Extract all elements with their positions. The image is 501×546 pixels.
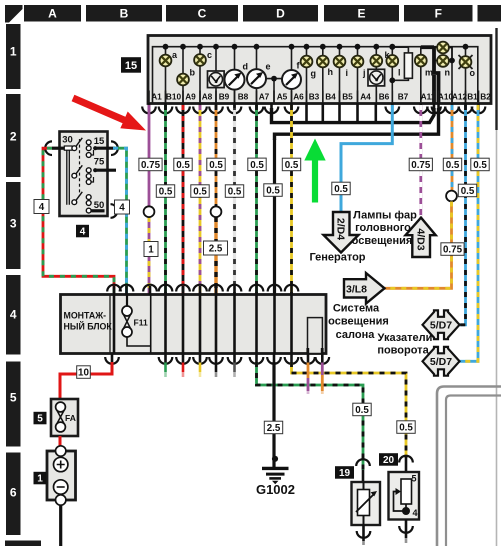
svg-text:0.5: 0.5 xyxy=(461,186,475,197)
bus junction dots xyxy=(163,44,169,50)
svg-text:C: C xyxy=(198,7,207,21)
element letter labels xyxy=(172,50,476,79)
wire lamp b to pin A9 xyxy=(182,47,184,103)
svg-text:d: d xyxy=(243,62,249,72)
svg-text:A7: A7 xyxy=(259,92,270,102)
connector arrow 2/D4 (to generator) xyxy=(324,212,359,253)
wire battery to chassis xyxy=(59,505,62,546)
svg-text:E: E xyxy=(357,7,365,21)
red pointer arrow xyxy=(72,95,146,131)
svg-text:B5: B5 xyxy=(342,92,353,102)
svg-text:A5: A5 xyxy=(277,92,288,102)
label 0.5 green wire xyxy=(353,403,371,416)
gauge B6 (temperature) xyxy=(368,69,385,86)
switch contact 30 terminal xyxy=(52,147,64,150)
connector fork terminal 50 xyxy=(111,204,118,218)
lamp l + resistor parallel branch wires xyxy=(392,47,408,103)
wire red 10 to fuse FA xyxy=(60,362,112,399)
indicator lamp l xyxy=(386,55,398,67)
svg-text:0.75: 0.75 xyxy=(411,160,431,171)
wire B8 white/black 0.5 xyxy=(233,105,236,295)
switch contact 50 terminal xyxy=(91,209,104,212)
label 0.75 orange wire xyxy=(441,243,464,256)
indicator lamp m xyxy=(415,55,427,67)
wire yellow/black 0.5 to resistor 20 xyxy=(292,362,407,458)
svg-text:B8: B8 xyxy=(238,92,249,102)
wire heavy black from lower bus to fuse box xyxy=(273,139,276,295)
wire lamp k / box B6 column xyxy=(375,47,377,103)
wire lamp a to pin B10 xyxy=(165,47,167,103)
svg-text:A4: A4 xyxy=(360,92,371,102)
svg-text:B4: B4 xyxy=(325,92,336,102)
svg-text:2: 2 xyxy=(10,129,17,143)
svg-text:0.75: 0.75 xyxy=(443,245,463,256)
resistor l (ballast) xyxy=(404,53,412,78)
fuse FA (component 5) xyxy=(51,399,78,436)
svg-text:30: 30 xyxy=(62,135,73,146)
svg-text:0.5: 0.5 xyxy=(285,160,299,171)
wire orange/yellow 0.75 to 3/L8 xyxy=(385,202,452,289)
wire B9 orange/black 0.5 (upper) xyxy=(215,105,218,207)
wire red fuse FA to battery xyxy=(59,436,62,448)
wire A8 yellow/purple 0.5 xyxy=(199,105,202,295)
gauge d xyxy=(225,70,245,90)
pin stubs B3,B4,B5,A4,B6 to bus line xyxy=(305,103,308,123)
svg-text:Указатели: Указатели xyxy=(378,332,433,344)
svg-text:B: B xyxy=(120,7,129,21)
wire B10 green/black 0.5 xyxy=(164,105,167,295)
svg-text:F: F xyxy=(435,7,442,21)
wires passing through fuse box xyxy=(113,295,116,354)
label 0.5 wire A9 xyxy=(174,158,192,171)
label 0.5 wire B1 xyxy=(471,158,489,171)
wire green/blue terminal 15 to fuse box xyxy=(113,148,127,294)
wire green/black 0.5 to rheostat 19 xyxy=(257,362,364,470)
wire lamp column x=339.5 xyxy=(339,47,341,103)
svg-text:A9: A9 xyxy=(185,92,196,102)
label 0.5 wire A12 xyxy=(458,184,476,197)
connector fork terminal 30 xyxy=(45,141,52,155)
indicator lamp k xyxy=(370,55,382,67)
label 1 battery xyxy=(34,472,47,485)
svg-text:0.5: 0.5 xyxy=(473,160,487,171)
svg-text:B2: B2 xyxy=(480,92,491,102)
n lamps link wires xyxy=(434,47,452,60)
svg-text:5/D7: 5/D7 xyxy=(430,320,452,332)
connector arrow 3/L8 (interior lighting) xyxy=(344,273,385,304)
label 2.5 wire B9 xyxy=(204,241,228,255)
svg-text:1: 1 xyxy=(10,44,17,58)
wire gauge f to pin A6 xyxy=(291,47,293,103)
switch contact groups xyxy=(86,140,91,145)
indicator lamp i xyxy=(334,56,346,68)
svg-text:10: 10 xyxy=(78,368,89,379)
indicator lamp n lower xyxy=(437,55,449,67)
gauge e-f link wire xyxy=(265,78,284,80)
switch contact 15 terminal xyxy=(95,147,115,150)
svg-text:6: 6 xyxy=(10,485,17,499)
label 0.75 wire A11 xyxy=(409,158,432,171)
svg-text:0.5: 0.5 xyxy=(176,160,190,171)
wire gauge link node to pin A5 xyxy=(273,79,275,103)
svg-text:освещения: освещения xyxy=(328,316,389,328)
wire lamp column x=322.8 xyxy=(322,47,324,103)
svg-text:НЫЙ БЛОК: НЫЙ БЛОК xyxy=(64,321,113,332)
wire B9 orange/black 2.5 (lower) xyxy=(214,217,217,295)
svg-text:0.5: 0.5 xyxy=(399,423,413,434)
svg-text:4: 4 xyxy=(39,202,45,213)
svg-text:2/D4: 2/D4 xyxy=(335,218,347,240)
svg-text:B10: B10 xyxy=(166,92,182,102)
wire red/green ignition to fuse box xyxy=(43,148,114,294)
svg-text:МОНТАЖ-: МОНТАЖ- xyxy=(64,311,107,321)
svg-text:G1002: G1002 xyxy=(256,482,295,497)
label 2.5 ground wire xyxy=(264,421,282,434)
cluster pin labels xyxy=(151,92,491,102)
svg-text:F11: F11 xyxy=(134,318,148,328)
svg-text:4: 4 xyxy=(10,307,17,321)
wire lamp c to pin A8 xyxy=(199,47,201,103)
connector fork terminal 15 xyxy=(111,141,118,155)
svg-text:0.5: 0.5 xyxy=(209,160,223,171)
wire A11 purple/white 0.75 xyxy=(419,105,422,218)
label 0.5 wire B8 xyxy=(225,185,243,198)
svg-text:0.5: 0.5 xyxy=(228,187,242,198)
wire gauge e to pin A7 xyxy=(256,47,258,103)
svg-text:5: 5 xyxy=(37,414,43,425)
fuse/relay box МОНТАЖНЫЙ БЛОК xyxy=(61,295,327,354)
svg-text:o: o xyxy=(470,68,476,78)
wire lamp column x=306.5 xyxy=(306,47,308,103)
svg-text:Система: Система xyxy=(333,303,380,315)
connector forks under fuse box xyxy=(111,354,114,363)
svg-text:головного: головного xyxy=(355,222,411,234)
label 15 xyxy=(121,57,141,72)
label 1 wire A1 xyxy=(144,242,158,257)
label 4 ignition switch xyxy=(76,225,89,238)
svg-text:B1: B1 xyxy=(467,92,478,102)
label 0.5 yellow wire xyxy=(397,421,415,434)
heavy wire pin A5 to bus (upper horizontal) xyxy=(272,108,435,123)
switch contact 75 terminal xyxy=(95,169,116,172)
wire A10 orange/blue 0.5 xyxy=(451,105,454,191)
svg-text:3: 3 xyxy=(10,216,17,230)
label 4 right wire xyxy=(115,200,130,214)
junction on wire A10 xyxy=(446,191,457,202)
svg-text:e: e xyxy=(266,62,271,72)
svg-text:4: 4 xyxy=(80,227,86,238)
junction on wire A1 xyxy=(144,206,155,217)
svg-text:0.5: 0.5 xyxy=(193,187,207,198)
heavy pin wire P1 xyxy=(432,75,436,103)
battery (component 1) xyxy=(47,451,76,500)
svg-text:освещения: освещения xyxy=(352,235,413,247)
instrument cluster unit 15 (box) xyxy=(148,36,491,104)
variable resistor 20 (fuel level sender) xyxy=(399,456,413,463)
wire A9 black/red 0.5 xyxy=(182,105,185,295)
indicator lamp j xyxy=(352,56,364,68)
stub wire purple/orange below internal connector xyxy=(321,363,324,376)
label 0.5 wire A6 xyxy=(282,158,300,171)
green pointer arrow xyxy=(304,139,325,203)
svg-text:1: 1 xyxy=(37,474,43,485)
svg-text:0.5: 0.5 xyxy=(334,184,348,195)
indicator lamp n upper xyxy=(437,42,449,54)
wire B7 blue to generator arrow xyxy=(341,105,392,213)
gauge B9 (fuel level) xyxy=(208,71,225,88)
connector 5/D7 upper (turn signals) xyxy=(423,310,460,339)
label 0.5 blue wire xyxy=(332,182,350,195)
svg-text:Лампы фар: Лампы фар xyxy=(353,210,417,222)
wire B1 blue/yellow 0.5 xyxy=(460,105,479,361)
svg-text:D: D xyxy=(276,7,285,21)
svg-text:0.5: 0.5 xyxy=(266,186,280,197)
svg-text:салона: салона xyxy=(336,329,376,341)
indicator lamp a xyxy=(160,55,172,67)
svg-text:A8: A8 xyxy=(202,92,213,102)
label 0.5 wire A8 xyxy=(191,185,209,198)
svg-text:A6: A6 xyxy=(293,92,304,102)
wire A1 purple 0.75 (upper) xyxy=(148,105,151,207)
connector 5/D7 lower (turn signals) xyxy=(423,347,460,376)
connector forks on top of fuse box xyxy=(113,286,116,295)
svg-text:1: 1 xyxy=(148,245,154,256)
svg-text:0.5: 0.5 xyxy=(355,405,369,416)
svg-text:c: c xyxy=(207,50,212,60)
wire A6 yellow/black 0.5 xyxy=(290,105,293,295)
label 0.75 wire A1 xyxy=(139,158,162,171)
gauge e xyxy=(247,69,266,88)
svg-text:A: A xyxy=(48,7,57,21)
fuse F11 xyxy=(126,295,128,307)
svg-text:2.5: 2.5 xyxy=(209,244,223,255)
junction on wire B9 xyxy=(211,206,222,217)
rheostat 19 (instrument illumination) xyxy=(356,459,370,466)
svg-text:4/D3: 4/D3 xyxy=(415,228,427,250)
svg-text:4: 4 xyxy=(413,508,418,518)
label 0.5 wire A7 xyxy=(248,158,266,171)
ground G1002 xyxy=(272,362,275,467)
indicator lamp g xyxy=(301,56,313,68)
switch arms xyxy=(76,138,82,201)
switch internal rails xyxy=(67,150,70,205)
connector arrow 4/D3 (headlamps) xyxy=(406,218,436,257)
gauge f xyxy=(282,70,301,89)
illumination lamp o xyxy=(459,55,473,69)
label 10 red wire xyxy=(77,366,91,379)
svg-text:2.5: 2.5 xyxy=(267,423,281,434)
svg-text:поворота: поворота xyxy=(377,345,429,357)
svg-text:B9: B9 xyxy=(219,92,230,102)
wire A7 green/black 0.5 xyxy=(255,105,258,295)
indicator lamp h xyxy=(317,56,329,68)
wire lamp m to pin A11 xyxy=(420,47,422,103)
svg-text:5: 5 xyxy=(10,390,17,404)
svg-text:75: 75 xyxy=(94,157,105,168)
wire gauge B9 to pin xyxy=(215,47,217,103)
wire lamp o to pin A12 xyxy=(465,47,467,103)
svg-text:j: j xyxy=(362,68,366,78)
svg-text:B7: B7 xyxy=(398,92,409,102)
indicator lamp c xyxy=(194,54,206,66)
label 19 xyxy=(335,466,354,479)
svg-text:0.75: 0.75 xyxy=(141,160,161,171)
stub wire orange/purple below internal connector xyxy=(307,363,310,379)
svg-text:h: h xyxy=(328,67,334,77)
svg-text:m: m xyxy=(425,68,433,78)
svg-text:Генератор: Генератор xyxy=(309,252,365,264)
internal connector box xyxy=(308,318,323,354)
svg-text:B3: B3 xyxy=(309,92,320,102)
svg-text:g: g xyxy=(311,69,317,79)
svg-text:l: l xyxy=(398,68,401,78)
svg-text:15: 15 xyxy=(125,60,137,72)
svg-text:n: n xyxy=(445,68,451,78)
svg-text:0.5: 0.5 xyxy=(446,160,460,171)
ignition switch 4 (box) xyxy=(60,132,108,217)
component frame outline (bottom-right, partial) xyxy=(437,387,501,546)
pin separator ticks xyxy=(149,91,479,104)
label 5 fuse FA xyxy=(34,412,47,425)
svg-text:5: 5 xyxy=(412,474,417,484)
label 0.5 wire A10 xyxy=(443,158,461,171)
svg-text:0.5: 0.5 xyxy=(250,160,264,171)
svg-text:4: 4 xyxy=(119,203,125,214)
svg-text:b: b xyxy=(190,68,196,78)
wire gauge d to pin B8 xyxy=(234,47,236,103)
svg-text:0.5: 0.5 xyxy=(159,187,173,198)
svg-text:i: i xyxy=(346,68,349,78)
switch rail contacts xyxy=(72,146,77,151)
indicator lamp b xyxy=(177,74,189,86)
heavy wire n-lamps feed xyxy=(434,47,439,103)
cluster internal supply bus wire xyxy=(153,47,478,103)
wire lamp column x=357.5 xyxy=(357,47,359,103)
cluster heavy bus segment xyxy=(421,45,434,49)
svg-text:FA: FA xyxy=(65,413,76,423)
label 0.5 black wire xyxy=(264,184,282,197)
svg-text:3/L8: 3/L8 xyxy=(346,283,367,295)
svg-text:B6: B6 xyxy=(379,92,390,102)
svg-text:15: 15 xyxy=(94,136,105,147)
fading wire stubs below fuse box xyxy=(164,363,167,373)
heavy wire lower horizontal to fuse box xyxy=(275,108,439,140)
svg-text:19: 19 xyxy=(339,468,351,479)
label 20 xyxy=(379,453,398,466)
label 4 left wire xyxy=(34,200,49,214)
label 0.5 wire B10 xyxy=(156,185,174,198)
svg-text:20: 20 xyxy=(383,455,395,466)
wire A12 blue/black 0.5 xyxy=(460,105,466,325)
svg-text:A1: A1 xyxy=(151,92,162,102)
label 0.5 wire B9 xyxy=(207,158,225,171)
wire n-lamps node to pin A10 xyxy=(451,61,453,104)
connector forks below cluster xyxy=(148,103,151,112)
svg-text:5/D7: 5/D7 xyxy=(430,356,452,368)
wire A1 purple/yellow (lower) xyxy=(148,217,151,295)
